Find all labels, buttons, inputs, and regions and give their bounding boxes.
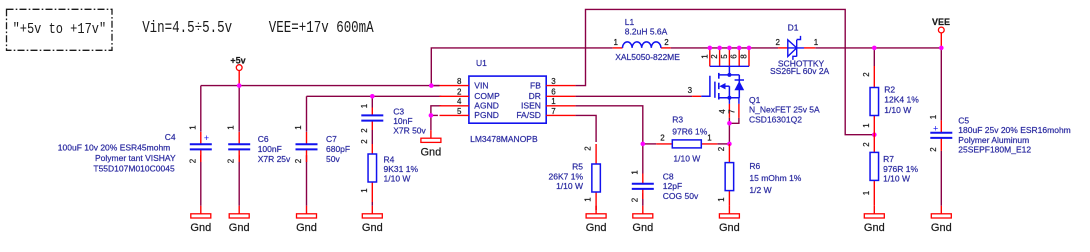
- inductor L1: [613, 17, 681, 62]
- wire R4 to gnd: [371, 202, 373, 206]
- svg-text:15 mOhm 1%: 15 mOhm 1%: [749, 173, 801, 183]
- svg-text:VIN: VIN: [474, 80, 488, 90]
- svg-text:12K4 1%: 12K4 1%: [884, 94, 919, 104]
- wire C7 to gnd: [306, 155, 308, 206]
- svg-text:2: 2: [862, 72, 871, 77]
- Q1 source pin stubs 4,7: [728, 98, 730, 104]
- svg-text:6: 6: [730, 54, 739, 59]
- svg-text:5: 5: [457, 107, 462, 116]
- svg-text:26K7 1%: 26K7 1%: [549, 171, 584, 181]
- drain bus junction dots: [708, 46, 752, 51]
- svg-text:ISEN: ISEN: [521, 101, 541, 111]
- svg-text:2: 2: [929, 147, 938, 152]
- svg-text:Gnd: Gnd: [296, 222, 317, 234]
- svg-text:R5: R5: [572, 162, 583, 172]
- svg-text:Q1: Q1: [749, 95, 761, 105]
- svg-text:X7R 50v: X7R 50v: [393, 126, 426, 136]
- svg-text:2: 2: [776, 38, 781, 47]
- wire VIN link: [431, 85, 439, 87]
- power +5v symbol: [230, 56, 245, 86]
- svg-text:2: 2: [664, 38, 669, 47]
- svg-text:U1: U1: [476, 58, 487, 68]
- svg-text:1: 1: [862, 190, 871, 195]
- wire C5 to gnd: [940, 151, 942, 206]
- node FB divider: [872, 132, 877, 137]
- ground R7: [864, 206, 885, 234]
- svg-text:3: 3: [688, 86, 693, 95]
- resistor R4 body: [368, 154, 377, 182]
- wire AGND jog: [431, 106, 441, 116]
- svg-text:1: 1: [227, 125, 236, 130]
- capacitor C7 plates: [296, 144, 318, 149]
- svg-text:VEE=+17v 600mA: VEE=+17v 600mA: [269, 20, 374, 38]
- svg-text:N_NexFET 25v 5A: N_NexFET 25v 5A: [749, 105, 820, 115]
- svg-text:+: +: [204, 133, 209, 143]
- wire R3 to source node: [717, 143, 729, 145]
- svg-text:Vin=4.5÷5.5v: Vin=4.5÷5.5v: [142, 20, 232, 38]
- wire C6 to gnd: [238, 155, 240, 206]
- resistor R5: [549, 144, 601, 210]
- svg-text:Gnd: Gnd: [586, 222, 607, 234]
- ground C5: [931, 206, 952, 234]
- capacitor C6: [227, 125, 291, 164]
- node Q1 pins 4-7: [727, 121, 732, 126]
- wire ISEN net: [575, 106, 642, 144]
- svg-text:2: 2: [584, 146, 593, 151]
- svg-text:"+5v to +17v": "+5v to +17v": [13, 22, 107, 39]
- svg-text:2: 2: [188, 158, 197, 163]
- svg-text:1: 1: [360, 103, 369, 108]
- svg-text:5: 5: [720, 54, 729, 59]
- wire VEE node to C5: [940, 48, 942, 121]
- capacitor C4 plates: [190, 133, 212, 150]
- svg-text:7: 7: [727, 109, 736, 114]
- U1 pin numbers: [457, 77, 556, 116]
- wire PGND link: [431, 114, 438, 116]
- title text: [13, 22, 107, 39]
- svg-text:2: 2: [710, 54, 719, 59]
- wire C3 branch top: [371, 96, 373, 107]
- svg-text:PGND: PGND: [474, 110, 499, 120]
- svg-text:Gnd: Gnd: [864, 222, 885, 234]
- U1 pin names: [474, 80, 541, 120]
- svg-text:1: 1: [700, 54, 709, 59]
- capacitor C8: [630, 170, 699, 203]
- svg-text:976R 1%: 976R 1%: [883, 164, 918, 174]
- wire +5v rail: [201, 85, 440, 87]
- capacitor C5: [929, 114, 1071, 154]
- wire Q1 source down: [728, 123, 730, 144]
- wire to U1 ground: [430, 115, 432, 130]
- resistor R5 body: [592, 164, 601, 192]
- svg-text:Gnd: Gnd: [719, 222, 740, 234]
- svg-text:Gnd: Gnd: [421, 146, 442, 158]
- wire out to R2: [873, 48, 875, 66]
- svg-text:R6: R6: [749, 161, 760, 171]
- svg-text:XAL5050-822ME: XAL5050-822ME: [615, 52, 680, 62]
- wire C3 to R4: [371, 130, 373, 144]
- capacitor C3 plates: [361, 115, 383, 120]
- capacitor C3: [360, 103, 427, 135]
- svg-text:CSD16301Q2: CSD16301Q2: [749, 114, 802, 124]
- svg-text:1: 1: [294, 125, 303, 130]
- svg-text:L1: L1: [625, 17, 635, 27]
- wire node to C8: [642, 144, 644, 174]
- U1 pin stubs left: [440, 86, 469, 116]
- svg-text:4: 4: [718, 109, 727, 114]
- svg-text:Gnd: Gnd: [229, 222, 250, 234]
- U1 pin stubs right: [546, 86, 575, 116]
- svg-text:Gnd: Gnd: [931, 222, 952, 234]
- resistor R3: [656, 114, 717, 163]
- ground C8: [632, 206, 653, 234]
- svg-text:8: 8: [457, 77, 462, 86]
- wire D1 to VEE node: [815, 47, 941, 49]
- svg-text:1: 1: [360, 188, 369, 193]
- resistor R4: [360, 139, 419, 202]
- wire C4 to gnd: [200, 155, 202, 206]
- svg-text:Gnd: Gnd: [632, 222, 653, 234]
- resistor R7 body: [870, 152, 879, 180]
- wire C8 to gnd: [642, 193, 644, 206]
- transistor Q1 N-MOSFET: [688, 66, 820, 124]
- svg-text:C6: C6: [258, 134, 269, 144]
- svg-text:2: 2: [717, 146, 726, 151]
- svg-text:2: 2: [360, 139, 369, 144]
- wire source pins join: [729, 118, 739, 123]
- ground R6: [719, 206, 740, 234]
- capacitor C4: [58, 125, 212, 174]
- svg-text:680pF: 680pF: [326, 144, 350, 154]
- diode D1 schottky: [770, 22, 830, 76]
- svg-text:1: 1: [929, 114, 938, 119]
- svg-text:2: 2: [660, 133, 665, 142]
- svg-text:C8: C8: [663, 172, 674, 182]
- svg-text:+: +: [933, 124, 938, 134]
- svg-text:2: 2: [457, 88, 462, 97]
- wire C4 branch top: [200, 86, 202, 132]
- op-amp U1 LM3478 box: [469, 58, 546, 144]
- svg-text:X7R 25v: X7R 25v: [258, 154, 291, 164]
- svg-text:+5v: +5v: [230, 56, 245, 66]
- svg-text:180uF 25v 20% ESR16mohm: 180uF 25v 20% ESR16mohm: [958, 125, 1070, 135]
- wire C7 branch top: [306, 96, 308, 132]
- svg-text:AGND: AGND: [474, 101, 499, 111]
- Q1 drain pin stubs 1,2,5,6,8: [700, 48, 749, 66]
- node rail / VIN riser: [429, 83, 434, 88]
- capacitor C7: [294, 125, 350, 164]
- svg-text:D1: D1: [788, 22, 799, 32]
- svg-text:Polymer tant VISHAY: Polymer tant VISHAY: [95, 153, 176, 163]
- svg-text:1: 1: [862, 123, 871, 128]
- svg-text:FA/SD: FA/SD: [516, 110, 541, 120]
- svg-text:C7: C7: [326, 134, 337, 144]
- svg-text:1: 1: [614, 38, 619, 47]
- ground R4: [362, 206, 383, 234]
- svg-text:R7: R7: [883, 154, 894, 164]
- power VEE symbol: [932, 17, 950, 48]
- svg-text:2: 2: [294, 158, 303, 163]
- svg-text:8.2uH 5.6A: 8.2uH 5.6A: [625, 27, 668, 37]
- wire FA/SD to R5: [575, 115, 596, 142]
- resistor R6: [717, 144, 802, 206]
- svg-text:DR: DR: [529, 91, 541, 101]
- svg-text:1/2 W: 1/2 W: [749, 185, 771, 195]
- svg-text:FB: FB: [530, 80, 541, 90]
- svg-text:2: 2: [630, 197, 639, 202]
- wire DR to gate: [575, 95, 692, 97]
- svg-text:1: 1: [707, 133, 712, 142]
- node output / R2: [872, 46, 877, 51]
- wire L1 to D1: [671, 47, 778, 49]
- svg-text:1/10 W: 1/10 W: [673, 153, 700, 163]
- svg-text:1: 1: [584, 197, 593, 202]
- svg-text:4: 4: [457, 97, 462, 106]
- svg-text:25SEPF180M_E12: 25SEPF180M_E12: [958, 145, 1031, 155]
- svg-text:C3: C3: [393, 106, 404, 116]
- svg-text:COMP: COMP: [474, 91, 500, 101]
- node AGND-PGND: [429, 113, 434, 118]
- svg-text:1: 1: [814, 38, 819, 47]
- svg-text:100uF 10v 20% ESR45mohm: 100uF 10v 20% ESR45mohm: [58, 143, 170, 153]
- svg-text:Polymer Aluminum: Polymer Aluminum: [958, 135, 1029, 145]
- svg-text:COG 50v: COG 50v: [663, 191, 699, 201]
- svg-text:C4: C4: [165, 132, 176, 142]
- svg-text:7: 7: [551, 107, 556, 116]
- svg-text:1/10 W: 1/10 W: [884, 105, 911, 115]
- resistor R2: [862, 66, 919, 135]
- node ISEN / R3 / C8: [641, 142, 646, 147]
- wire FB net: [575, 9, 874, 134]
- svg-text:1/10 W: 1/10 W: [384, 173, 411, 183]
- svg-text:2: 2: [862, 142, 871, 147]
- svg-text:1: 1: [717, 197, 726, 202]
- svg-text:1/10 W: 1/10 W: [883, 174, 910, 184]
- svg-text:1: 1: [551, 97, 556, 106]
- wire riser to L1: [431, 48, 612, 86]
- capacitor C6 plates: [228, 144, 250, 149]
- svg-text:1: 1: [630, 170, 639, 175]
- svg-text:LM3478MANOPB: LM3478MANOPB: [470, 134, 538, 144]
- ground C4: [190, 206, 211, 234]
- svg-text:Gnd: Gnd: [362, 222, 383, 234]
- svg-text:8: 8: [740, 54, 749, 59]
- ground U1: [421, 130, 442, 158]
- note VEE: [269, 20, 374, 38]
- node output / VEE: [939, 46, 944, 51]
- resistor R2 body: [870, 88, 879, 116]
- node R3 / Q1 / R6: [727, 142, 732, 147]
- svg-text:R2: R2: [884, 85, 895, 95]
- node COMP / C3: [370, 94, 375, 99]
- svg-text:Gnd: Gnd: [190, 222, 211, 234]
- node +5v rail / C6: [237, 83, 242, 88]
- svg-text:12pF: 12pF: [663, 181, 682, 191]
- svg-text:3: 3: [551, 77, 556, 86]
- ground C6: [229, 206, 250, 234]
- wire COMP line: [307, 95, 442, 97]
- svg-text:2: 2: [227, 158, 236, 163]
- ground C7: [296, 206, 317, 234]
- svg-text:T55D107M010C0045: T55D107M010C0045: [93, 163, 175, 173]
- svg-text:50v: 50v: [326, 154, 340, 164]
- wire R5 to gnd: [595, 206, 597, 210]
- resistor R7: [862, 135, 919, 206]
- resistor R6 body: [725, 163, 734, 191]
- svg-text:100nF: 100nF: [258, 144, 282, 154]
- Q1 body diode: [738, 75, 740, 98]
- capacitor C8 plates: [632, 184, 654, 189]
- title dashed box: [7, 9, 113, 50]
- svg-text:VEE: VEE: [932, 17, 950, 27]
- svg-text:C5: C5: [958, 115, 969, 125]
- note Vin: [142, 20, 232, 38]
- ground R5: [586, 206, 607, 234]
- svg-text:10nF: 10nF: [393, 116, 412, 126]
- capacitor C5 plates: [930, 124, 952, 138]
- svg-text:6: 6: [551, 88, 556, 97]
- wire C6 branch top: [238, 86, 240, 132]
- svg-text:97R6 1%: 97R6 1%: [672, 127, 707, 137]
- svg-text:1: 1: [188, 125, 197, 130]
- svg-text:1/10 W: 1/10 W: [556, 181, 583, 191]
- svg-text:R3: R3: [672, 114, 683, 124]
- svg-text:2: 2: [360, 128, 369, 133]
- svg-text:SS26FL 60v 2A: SS26FL 60v 2A: [770, 66, 830, 76]
- wire node to R3: [643, 143, 657, 145]
